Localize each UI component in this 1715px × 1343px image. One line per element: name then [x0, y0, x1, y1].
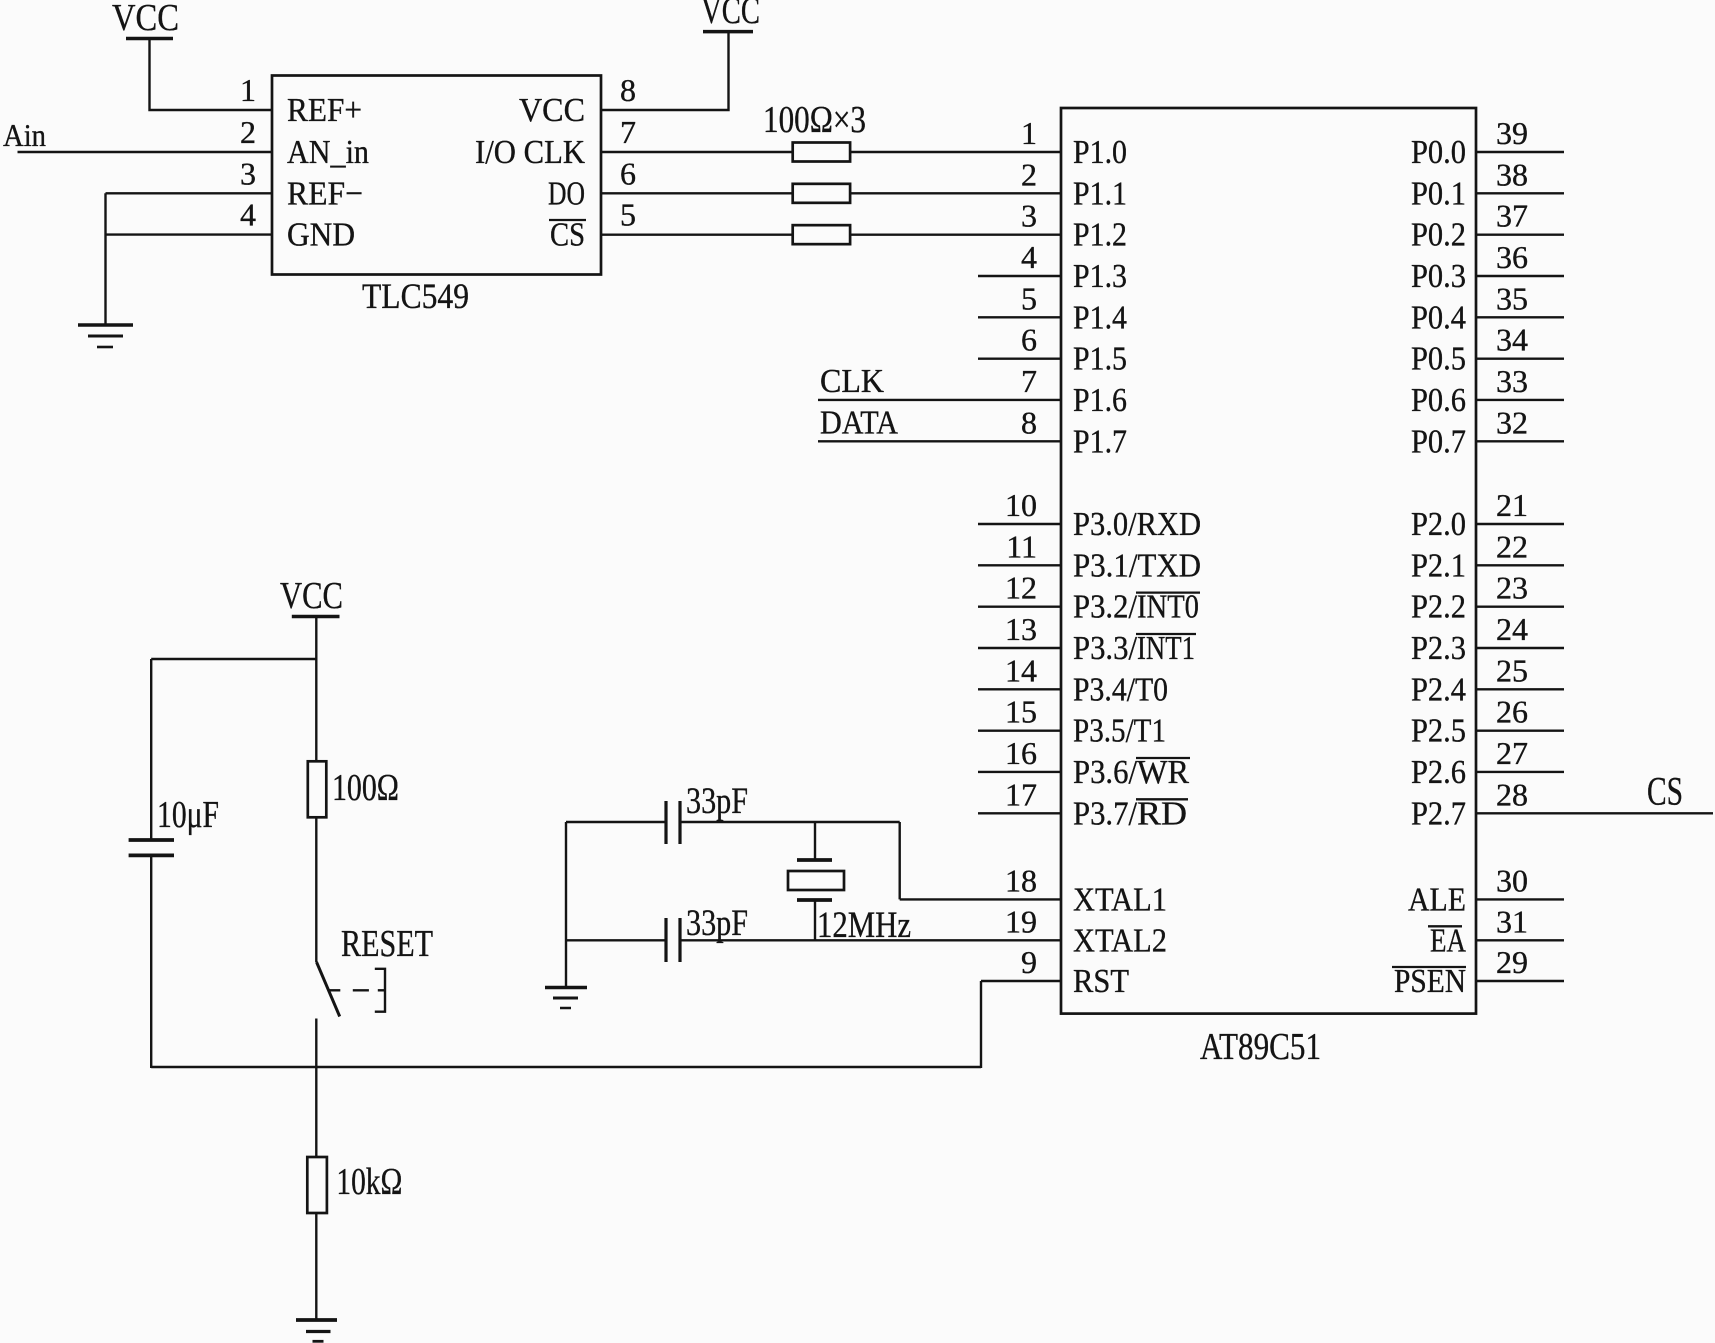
- svg-text:EA: EA: [1430, 922, 1466, 959]
- wire Ain to U1 pin 2 AN_in: [18, 151, 273, 153]
- wire stub U2 pin 29 PSEN: [1476, 980, 1564, 982]
- svg-text:P0.0: P0.0: [1411, 134, 1466, 171]
- wire C3 to bottom net: [150, 855, 152, 1068]
- wire vertical down to U2 XTAL1: [899, 822, 901, 899]
- svg-text:27: 27: [1496, 735, 1528, 771]
- power VCC symbol (U1 pin 8 supply): [701, 0, 760, 32]
- svg-text:7: 7: [620, 114, 636, 150]
- wire stub U2 pin 12: [978, 605, 1061, 607]
- wire stub U2 pin 4 P1.3: [978, 275, 1061, 277]
- wire U1 pin 8 VCC to supply: [601, 32, 729, 110]
- wire R4 to switch: [315, 817, 317, 962]
- wire stub U2 pin 16: [978, 771, 1061, 773]
- wire stub U2 pin 17: [978, 812, 1061, 814]
- svg-text:1: 1: [240, 72, 256, 108]
- U2 pin name P3.7/RD with overline on RD: [1073, 795, 1188, 832]
- wire DATA to U2 P1.7: [818, 440, 1061, 442]
- power VCC symbol (TLC549 REF+ supply): [112, 0, 179, 39]
- wire down to capacitor C3: [150, 659, 152, 840]
- resistor R3 100&#937;: [793, 225, 850, 244]
- svg-text:VCC: VCC: [519, 92, 585, 129]
- svg-text:24: 24: [1496, 611, 1528, 647]
- svg-text:WR: WR: [1137, 754, 1189, 791]
- svg-text:3: 3: [240, 155, 256, 191]
- wire CLK to U2 P1.6: [818, 399, 1061, 401]
- svg-text:P3.2/: P3.2/: [1073, 589, 1137, 626]
- svg-text:P0.3: P0.3: [1411, 258, 1466, 295]
- resistor R4 100&#937;: [308, 761, 327, 817]
- wire stub U2 pin 35 P0.4: [1476, 316, 1564, 318]
- svg-text:1: 1: [1021, 115, 1037, 151]
- svg-text:31: 31: [1496, 903, 1528, 939]
- svg-text:ALE: ALE: [1408, 881, 1466, 918]
- svg-text:37: 37: [1496, 198, 1528, 234]
- wire junction to capacitor C3 branch: [151, 658, 316, 660]
- svg-text:15: 15: [1005, 694, 1037, 730]
- svg-text:13: 13: [1005, 611, 1037, 647]
- svg-text:P2.7: P2.7: [1411, 795, 1466, 832]
- svg-text:21: 21: [1496, 487, 1528, 523]
- wire stub U2 pin 38 P0.1: [1476, 192, 1564, 194]
- wire U1 to resistor R3: [601, 233, 793, 235]
- wire C2 to U2 XTAL2 pin 19: [680, 939, 1061, 941]
- svg-text:P1.0: P1.0: [1073, 134, 1127, 171]
- wire stub U2 pin 30 ALE: [1476, 898, 1564, 900]
- ground symbol (TLC549): [78, 325, 133, 347]
- wire stub U2 pin 10: [978, 523, 1061, 525]
- svg-text:22: 22: [1496, 528, 1528, 564]
- ground symbol (oscillator): [545, 988, 587, 1009]
- svg-text:100Ω×3: 100Ω×3: [763, 99, 866, 141]
- svg-text:VCC: VCC: [112, 0, 179, 39]
- wire stub U2 pin 24 P2.3: [1476, 647, 1564, 649]
- svg-text:REF−: REF−: [287, 175, 363, 212]
- svg-text:P2.6: P2.6: [1411, 754, 1466, 791]
- svg-text:I/O CLK: I/O CLK: [475, 134, 585, 171]
- svg-text:19: 19: [1005, 903, 1037, 939]
- wire stub U2 pin 34 P0.5: [1476, 357, 1564, 359]
- svg-text:4: 4: [240, 197, 256, 233]
- svg-text:P2.5: P2.5: [1411, 713, 1466, 750]
- svg-text:6: 6: [1021, 322, 1037, 358]
- wire stub U2 pin 27 P2.6: [1476, 771, 1564, 773]
- svg-text:P0.5: P0.5: [1411, 341, 1466, 378]
- wire crystal bottom to XTAL2 net: [814, 900, 816, 940]
- svg-text:100Ω: 100Ω: [332, 767, 399, 809]
- svg-text:26: 26: [1496, 694, 1528, 730]
- svg-text:16: 16: [1005, 735, 1037, 771]
- svg-text:CS: CS: [550, 217, 585, 254]
- svg-text:P3.5/T1: P3.5/T1: [1073, 713, 1166, 750]
- wire stub U2 pin 13: [978, 647, 1061, 649]
- wire stub U2 pin 37 P0.2: [1476, 233, 1564, 235]
- svg-text:P2.3: P2.3: [1411, 630, 1466, 667]
- wire U1 to resistor R1: [601, 151, 793, 153]
- svg-text:RST: RST: [1073, 963, 1129, 1000]
- svg-text:6: 6: [620, 155, 636, 191]
- wire to U2 XTAL1 pin 18: [900, 898, 1061, 900]
- switch S1 RESET blade: [317, 962, 340, 1017]
- resistor R1 100&#937;: [793, 143, 850, 162]
- wire stub U2 pin 21 P2.0: [1476, 523, 1564, 525]
- wire stub U2 pin 22 P2.1: [1476, 564, 1564, 566]
- svg-text:P2.4: P2.4: [1411, 671, 1466, 708]
- svg-text:5: 5: [620, 197, 636, 233]
- svg-text:P1.3: P1.3: [1073, 258, 1127, 295]
- svg-text:28: 28: [1496, 776, 1528, 812]
- wire U2 P2.7 to node CS: [1476, 812, 1713, 814]
- wire crystal top connection: [814, 822, 816, 860]
- U2 pin name EA with overline: [1428, 922, 1466, 959]
- svg-text:12: 12: [1005, 570, 1037, 606]
- svg-text:P2.0: P2.0: [1411, 506, 1466, 543]
- capacitor C1 33pF: [666, 801, 680, 844]
- svg-text:10: 10: [1005, 487, 1037, 523]
- svg-text:AT89C51: AT89C51: [1200, 1026, 1321, 1068]
- svg-text:2: 2: [1021, 156, 1037, 192]
- wire stub U2 pin 39 P0.0: [1476, 151, 1564, 153]
- svg-text:18: 18: [1005, 862, 1037, 898]
- wire resistor R2 to U2 P1.1: [850, 192, 1061, 194]
- wire resistor R1 to U2 P1.0: [850, 151, 1061, 153]
- switch S1 actuator dashes: [329, 989, 386, 991]
- svg-text:P3.1/TXD: P3.1/TXD: [1073, 547, 1201, 584]
- wire VCC to U1 pin 1 REF+: [150, 39, 273, 111]
- svg-text:REF+: REF+: [287, 92, 362, 129]
- wire stub U2 pin 25 P2.4: [1476, 688, 1564, 690]
- wire stub U2 pin 23 P2.2: [1476, 605, 1564, 607]
- svg-text:17: 17: [1005, 776, 1037, 812]
- svg-text:DATA: DATA: [820, 404, 898, 441]
- wire stub U2 pin 14: [978, 688, 1061, 690]
- svg-text:CS: CS: [1647, 768, 1683, 813]
- svg-text:3: 3: [1021, 198, 1037, 234]
- wire stub U2 pin 32 P0.7: [1476, 440, 1564, 442]
- svg-text:34: 34: [1496, 322, 1528, 358]
- wire stub U2 pin 26 P2.5: [1476, 729, 1564, 731]
- wire to U2 RST pin 9: [981, 980, 1061, 982]
- svg-text:10kΩ: 10kΩ: [336, 1161, 402, 1203]
- svg-text:P1.2: P1.2: [1073, 217, 1127, 254]
- crystal Y1 12MHz: [788, 860, 844, 900]
- wire stub U2 pin 31 EA: [1476, 939, 1564, 941]
- wire stub U2 pin 15: [978, 729, 1061, 731]
- svg-text:P1.6: P1.6: [1073, 382, 1127, 419]
- svg-text:P2.2: P2.2: [1411, 589, 1466, 626]
- svg-text:38: 38: [1496, 156, 1528, 192]
- svg-text:33: 33: [1496, 363, 1528, 399]
- wire R5 to ground: [315, 1213, 317, 1320]
- svg-text:INT0: INT0: [1137, 589, 1199, 626]
- wire switch bottom to net: [315, 1019, 317, 1069]
- svg-text:14: 14: [1005, 652, 1037, 688]
- svg-text:P0.4: P0.4: [1411, 299, 1466, 336]
- svg-text:P3.0/RXD: P3.0/RXD: [1073, 506, 1201, 543]
- svg-text:2: 2: [240, 114, 256, 150]
- svg-text:8: 8: [620, 72, 636, 108]
- wire net down to resistor R5: [315, 1067, 317, 1157]
- capacitor C2 33pF: [666, 918, 680, 962]
- wire resistor R3 to U2 P1.2: [850, 233, 1061, 235]
- U2 pin name PSEN with overline: [1392, 963, 1466, 1000]
- svg-text:RESET: RESET: [341, 923, 433, 965]
- svg-text:RD: RD: [1137, 795, 1187, 832]
- wire stub U2 pin 6 P1.5: [978, 357, 1061, 359]
- svg-text:36: 36: [1496, 239, 1528, 275]
- svg-text:32: 32: [1496, 404, 1528, 440]
- wire vertical to ground (REF-/GND): [104, 193, 106, 325]
- svg-text:TLC549: TLC549: [362, 276, 469, 316]
- svg-text:P1.1: P1.1: [1073, 175, 1127, 212]
- wire C1 to XTAL1 node: [680, 821, 900, 823]
- wire stub U2 pin 33 P0.6: [1476, 399, 1564, 401]
- svg-text:11: 11: [1006, 528, 1037, 564]
- svg-text:P0.7: P0.7: [1411, 423, 1466, 460]
- U2 pin name P3.3/INT1 with overline on INT1: [1073, 630, 1196, 667]
- svg-text:5: 5: [1021, 280, 1037, 316]
- svg-text:GND: GND: [287, 217, 355, 254]
- svg-text:8: 8: [1021, 404, 1037, 440]
- U2 pin name P3.2/INT0 with overline on INT0: [1073, 589, 1200, 626]
- svg-text:XTAL2: XTAL2: [1073, 922, 1167, 959]
- svg-text:PSEN: PSEN: [1394, 963, 1466, 1000]
- svg-text:P3.4/T0: P3.4/T0: [1073, 671, 1168, 708]
- wire left to capacitor C1: [566, 821, 666, 823]
- wire left to capacitor C2: [566, 939, 666, 941]
- svg-text:P1.7: P1.7: [1073, 423, 1127, 460]
- svg-text:AN_in: AN_in: [287, 134, 369, 171]
- IC U1 TLC549 body: [272, 76, 601, 275]
- wire U1 pin 4 GND to ground: [106, 233, 273, 235]
- power VCC symbol (reset circuit): [280, 575, 343, 617]
- svg-text:P1.5: P1.5: [1073, 341, 1127, 378]
- svg-text:P3.3/: P3.3/: [1073, 630, 1137, 667]
- svg-text:25: 25: [1496, 652, 1528, 688]
- svg-text:39: 39: [1496, 115, 1528, 151]
- svg-text:9: 9: [1021, 944, 1037, 980]
- U1 pin 5 name CS with overline: [549, 217, 586, 254]
- wire stub U2 pin 36 P0.3: [1476, 275, 1564, 277]
- svg-text:29: 29: [1496, 944, 1528, 980]
- resistor R2 100&#937;: [793, 184, 850, 203]
- svg-text:P0.2: P0.2: [1411, 217, 1466, 254]
- svg-text:P1.4: P1.4: [1073, 299, 1127, 336]
- svg-text:P0.1: P0.1: [1411, 175, 1466, 212]
- wire stub U2 pin 5 P1.4: [978, 316, 1061, 318]
- svg-text:P0.6: P0.6: [1411, 382, 1466, 419]
- U2 pin name P3.6/WR with overline on WR: [1073, 754, 1190, 791]
- wire vertical caps common to ground: [565, 822, 567, 987]
- svg-text:35: 35: [1496, 280, 1528, 316]
- wire reset net up to U2 RST: [980, 981, 982, 1068]
- svg-text:P3.6/: P3.6/: [1073, 754, 1137, 791]
- svg-text:INT1: INT1: [1137, 630, 1195, 667]
- svg-text:VCC: VCC: [280, 575, 343, 617]
- switch S1 actuator bracket: [375, 969, 385, 1012]
- svg-text:33pF: 33pF: [686, 903, 748, 944]
- IC U2 AT89C51 body: [1061, 108, 1476, 1014]
- wire reset net horizontal: [151, 1066, 981, 1068]
- svg-text:VCC: VCC: [701, 0, 760, 32]
- svg-text:10μF: 10μF: [157, 794, 219, 836]
- wire U1 pin 3 REF- to ground: [106, 192, 273, 194]
- svg-text:P3.7/: P3.7/: [1073, 795, 1137, 832]
- wire U1 to resistor R2: [601, 192, 793, 194]
- resistor R5 10k&#937;: [307, 1157, 327, 1213]
- svg-text:P2.1: P2.1: [1411, 547, 1466, 584]
- capacitor C3 10&#956;F: [129, 840, 174, 855]
- svg-text:23: 23: [1496, 570, 1528, 606]
- wire VCC down to resistor R4: [315, 617, 317, 762]
- ground symbol (reset): [296, 1320, 337, 1341]
- svg-text:CLK: CLK: [820, 363, 884, 400]
- svg-text:33pF: 33pF: [686, 781, 748, 822]
- svg-text:Ain: Ain: [3, 117, 46, 153]
- svg-text:XTAL1: XTAL1: [1073, 881, 1167, 918]
- svg-text:4: 4: [1021, 239, 1037, 275]
- svg-text:DO: DO: [548, 175, 585, 212]
- wire stub U2 pin 11: [978, 564, 1061, 566]
- svg-text:7: 7: [1021, 363, 1037, 399]
- svg-text:30: 30: [1496, 862, 1528, 898]
